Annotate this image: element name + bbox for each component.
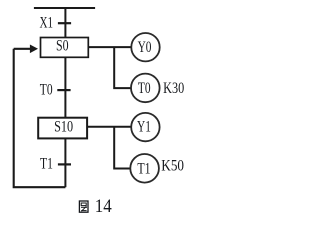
svg-text:14: 14 — [95, 197, 112, 216]
wire S0 right to branch — [88, 46, 131, 48]
svg-text:T1: T1 — [137, 160, 150, 177]
top rail — [34, 7, 95, 9]
coil Y1 — [131, 113, 159, 141]
wire return toward S0 — [14, 48, 31, 50]
svg-text:X1: X1 — [40, 14, 54, 31]
svg-text:K30: K30 — [163, 80, 184, 97]
step S0 — [41, 37, 89, 57]
contact T1 — [40, 156, 71, 173]
wire stem S0 to S10 — [64, 57, 66, 117]
svg-text:K50: K50 — [161, 158, 184, 175]
svg-text:S0: S0 — [56, 37, 69, 54]
contact T0 — [40, 81, 71, 98]
wire bottom return to left riser — [14, 49, 66, 187]
wire branch down to timer T0 — [114, 47, 131, 88]
svg-text:S10: S10 — [54, 119, 73, 136]
svg-text:T0: T0 — [40, 81, 53, 98]
svg-text:T0: T0 — [138, 80, 151, 97]
step S10 — [38, 118, 87, 139]
timer coil T1 — [130, 154, 159, 183]
svg-text:Y0: Y0 — [138, 39, 152, 56]
coil Y0 — [131, 33, 159, 61]
timer coil T0 — [131, 74, 160, 103]
svg-text:T1: T1 — [40, 156, 53, 173]
svg-text:Y1: Y1 — [137, 119, 151, 136]
contact X1 — [40, 14, 72, 31]
wire stem S10 down to bottom return — [64, 138, 66, 187]
arrowhead into S0 — [30, 45, 38, 54]
caption glyph 圖 — [79, 201, 88, 212]
wire S10 right to branch — [87, 126, 132, 128]
wire branch down to timer T1 — [114, 127, 130, 169]
wire stem from top rail to S0 — [64, 8, 66, 38]
